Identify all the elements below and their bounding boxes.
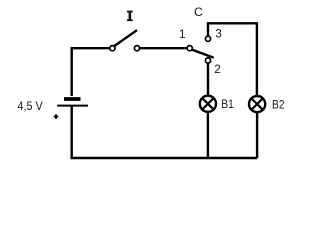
svg-text:B2: B2 (272, 97, 285, 111)
selector switch C blade (193, 50, 213, 58)
svg-text:B1: B1 (221, 97, 234, 111)
wire lamp B1 to bottom rail (207, 112, 209, 158)
selector terminal 3 (205, 36, 210, 41)
wire battery negative to bottom rail (72, 105, 257, 158)
wire selector terminal 3 to lamp B2 (208, 23, 257, 96)
selector terminal 2 (205, 58, 210, 63)
svg-text:4,5 V: 4,5 V (17, 99, 43, 113)
svg-text:2: 2 (214, 62, 221, 76)
switch I (110, 31, 140, 51)
lamp B1 (200, 96, 216, 112)
battery plus terminal label (54, 114, 59, 119)
svg-text:1: 1 (179, 27, 186, 41)
selector terminal 1 (187, 46, 192, 51)
battery 4,5 V (57, 99, 88, 106)
lamp B2 (249, 96, 265, 112)
wire battery positive to switch I terminal (72, 48, 113, 96)
wire switch I to selector terminal 1 (137, 47, 190, 49)
wire lamp B2 to bottom rail (256, 112, 258, 158)
svg-text:C: C (194, 5, 203, 19)
wire selector terminal 2 to lamp B1 (207, 61, 209, 96)
svg-text:3: 3 (215, 27, 222, 41)
label I (127, 11, 133, 22)
